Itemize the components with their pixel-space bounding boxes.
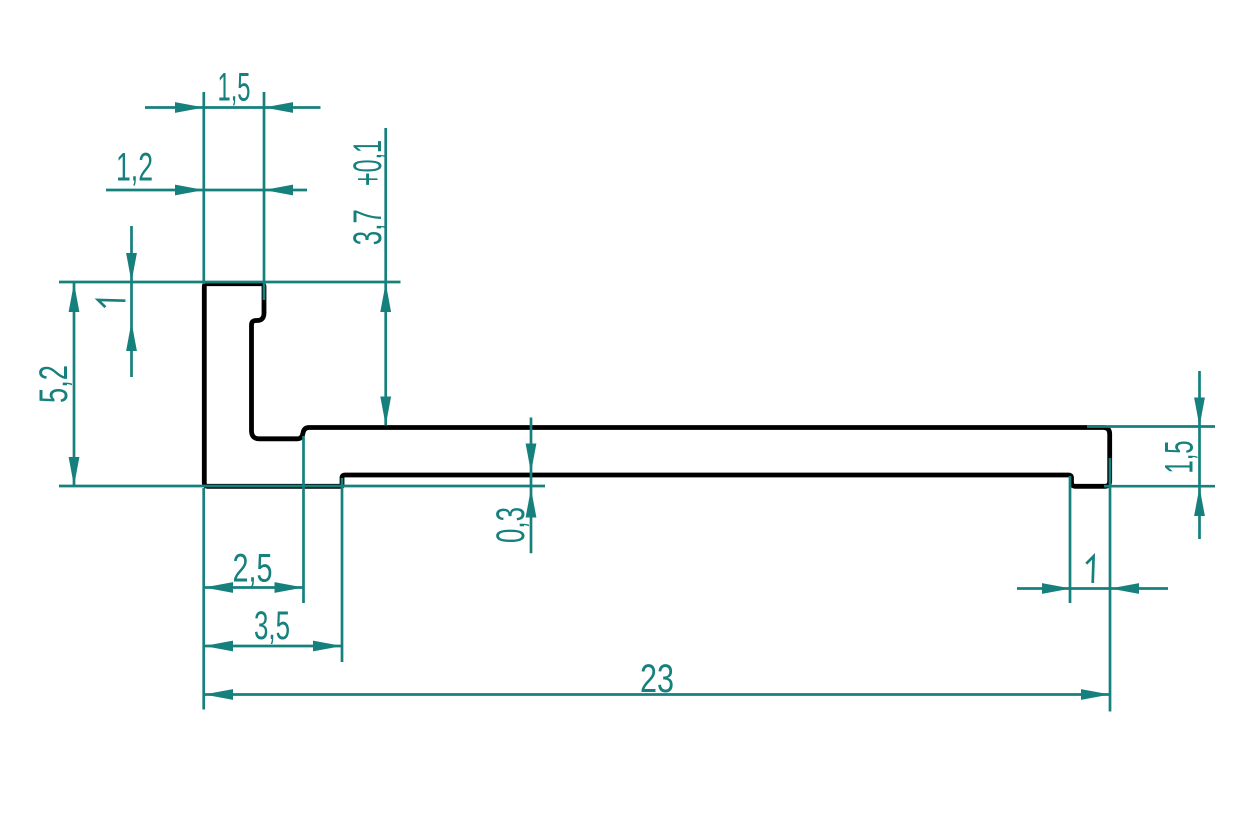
svg-text:1,2: 1,2 [116,146,153,190]
dim line 5,2 [73,283,76,486]
ext line top edge level [59,281,401,284]
arrows dim 1 notch (outside) [126,253,137,282]
arrows dim 3,5 [204,641,233,652]
arrows dim 0,3 (outside) [526,444,537,473]
arrows dim 1,5 top (outside pointing in) [175,102,204,113]
dim text 1 (right end, digit) [1086,556,1093,583]
ext line x=204 bottom [202,488,205,710]
arrows dim 23 [204,689,233,700]
arrows dim 1 right (outside) [1042,583,1071,594]
svg-text:3,5: 3,5 [254,604,290,648]
dim line 2,5 [204,586,304,589]
ext line bottom edge level [59,485,545,488]
arrows dim 5,2 (inside pointing out) [69,283,80,312]
dim line 3,7 [384,128,387,426]
dim text 1 (notch depth, rotated digit) [98,300,125,307]
arrows dim 3,7 (inside) [380,283,391,312]
arrows dim 1,5 right (outside) [1194,398,1205,427]
ext line x=1110 [1109,458,1112,712]
dim line 1 (right) [1017,587,1168,590]
arrows dim 1,2 [175,185,204,196]
svg-text:+0,1: +0,1 [346,140,390,186]
svg-text:23: 23 [640,657,674,701]
teal dimension graphics [59,92,1215,712]
dim line right 1,5 [1198,371,1201,539]
svg-text:1,5: 1,5 [218,66,251,110]
profile outline (black cross-section) [204,284,1109,487]
svg-text:0,3: 0,3 [489,507,533,543]
svg-text:3,7: 3,7 [346,209,390,245]
ext line right 1,5 top [1087,425,1215,428]
ext line x=303.5 (2,5) [302,436,305,603]
arrows dim 2,5 (inside pointing out) [204,582,233,593]
dim line 1,5 [145,106,321,109]
dim line 0,3 [530,418,533,554]
ext line right 1,5 bottom [1104,485,1215,488]
dim line 1,2 [106,189,307,192]
ext line right of 1,5 / 1,2 [263,92,266,300]
svg-text:2,5: 2,5 [233,547,273,591]
ext line x=1071 [1069,476,1072,603]
svg-text:1,5: 1,5 [1157,441,1201,474]
dim line 3,5 [204,645,342,648]
ext line left of 1,5 / 1,2 [202,92,205,284]
ext line x=342 (3,5) [341,478,344,662]
svg-text:5,2: 5,2 [32,365,76,403]
arrowheads [69,102,1205,700]
dim line 23 [204,693,1110,696]
dim line 1 (notch depth) [130,226,133,377]
